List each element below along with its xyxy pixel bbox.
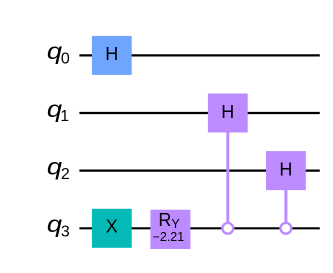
svg-text:1: 1 [60, 108, 69, 125]
svg-text:H: H [221, 102, 234, 122]
svg-text:0: 0 [61, 51, 70, 68]
svg-text:−2.21: −2.21 [153, 230, 185, 244]
svg-text:2: 2 [61, 166, 70, 183]
svg-text:X: X [106, 216, 118, 236]
svg-text:q: q [47, 212, 62, 238]
svg-text:H: H [279, 160, 292, 180]
svg-text:q: q [47, 154, 62, 180]
svg-text:H: H [105, 44, 118, 64]
svg-text:q: q [47, 39, 62, 65]
svg-text:3: 3 [61, 224, 70, 241]
